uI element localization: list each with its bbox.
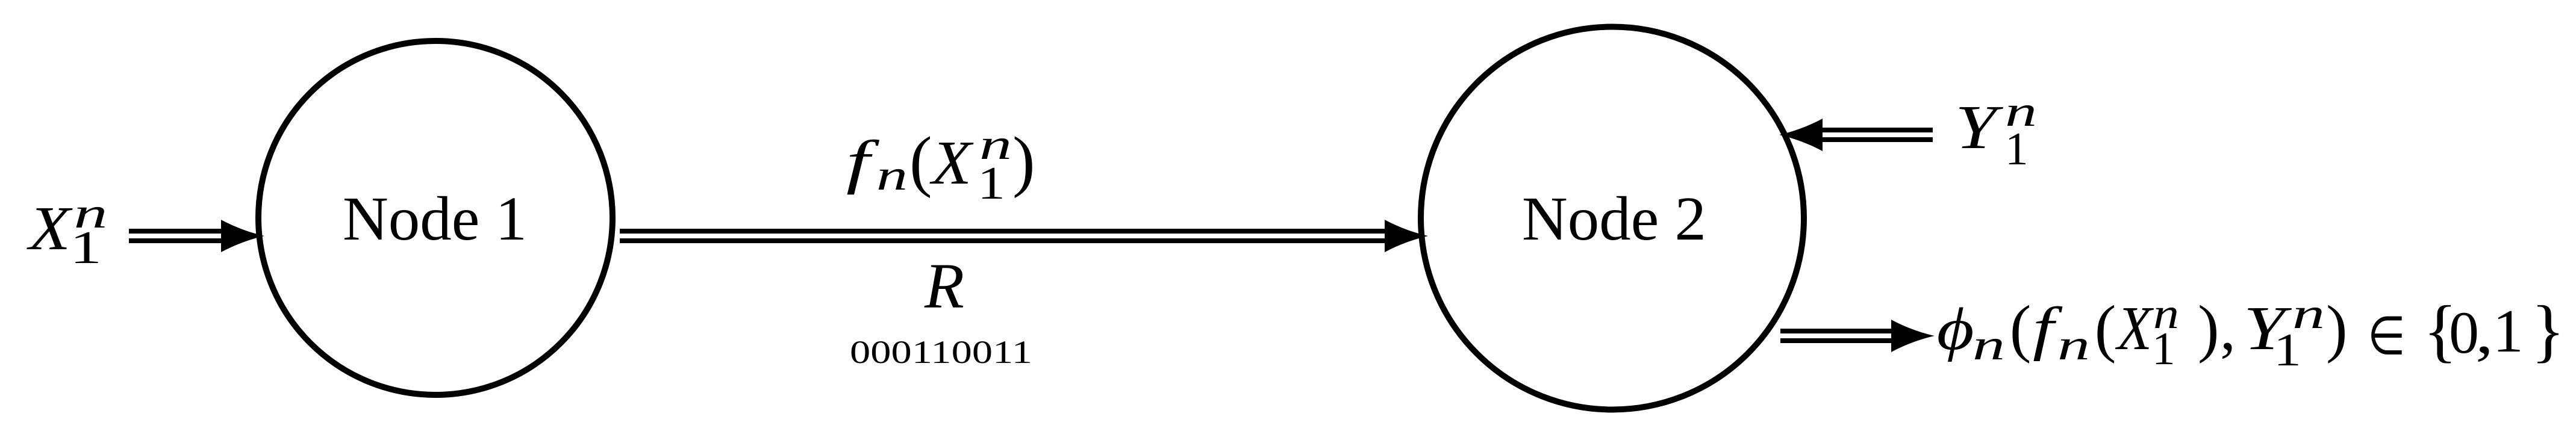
- svg-text:(: (: [2010, 293, 2032, 364]
- svg-text:R: R: [924, 251, 964, 322]
- svg-text:1: 1: [2274, 324, 2301, 376]
- svg-text:0: 0: [2449, 299, 2479, 366]
- svg-text:n: n: [1973, 321, 2005, 369]
- svg-text:Node 1: Node 1: [343, 184, 527, 253]
- svg-text:,: ,: [2475, 299, 2493, 366]
- node 1 circle: [258, 41, 613, 395]
- svg-text:,: ,: [2220, 294, 2236, 363]
- svg-text:X: X: [929, 128, 974, 197]
- label Y_1^n: [1955, 87, 2037, 175]
- svg-text:1: 1: [978, 157, 1005, 209]
- svg-text:n: n: [2057, 321, 2090, 369]
- svg-text:): ): [2198, 293, 2219, 364]
- svg-text:(: (: [909, 123, 932, 199]
- svg-text:1: 1: [2005, 123, 2029, 175]
- label f_n(X_1^n): [846, 120, 1035, 209]
- svg-text:): ): [1012, 123, 1035, 199]
- svg-text:ϕ: ϕ: [1937, 296, 1974, 362]
- svg-text:X: X: [2115, 294, 2154, 363]
- input arrow Y wire: [1820, 128, 1933, 132]
- svg-text:X: X: [27, 194, 73, 263]
- output arrow wire: [1780, 329, 1892, 333]
- svg-text:}: }: [2531, 292, 2565, 370]
- svg-text:f: f: [846, 128, 880, 195]
- input arrow Y head: [1779, 119, 1823, 151]
- svg-text:000110011: 000110011: [850, 334, 1032, 370]
- svg-text:1: 1: [2493, 297, 2524, 365]
- label X_1^n: [27, 189, 108, 273]
- svg-text:n: n: [876, 151, 908, 199]
- svg-text:Node 2: Node 2: [1522, 184, 1706, 253]
- input arrow X head: [221, 220, 264, 252]
- channel arrow wire: [620, 229, 1388, 234]
- output arrow head: [1891, 320, 1935, 352]
- svg-text:∈: ∈: [2368, 307, 2406, 365]
- channel arrow head: [1385, 220, 1428, 252]
- label phi_n(f_n(X_1^n),Y_1^n) in {0,1}: [1937, 290, 2565, 376]
- svg-text:(: (: [2095, 293, 2116, 364]
- svg-text:): ): [2326, 293, 2348, 364]
- svg-text:Y: Y: [1955, 93, 2004, 162]
- svg-text:1: 1: [2152, 323, 2175, 374]
- node 2 circle: [1421, 27, 1804, 410]
- input arrow X wire: [129, 229, 224, 234]
- svg-text:1: 1: [70, 222, 102, 273]
